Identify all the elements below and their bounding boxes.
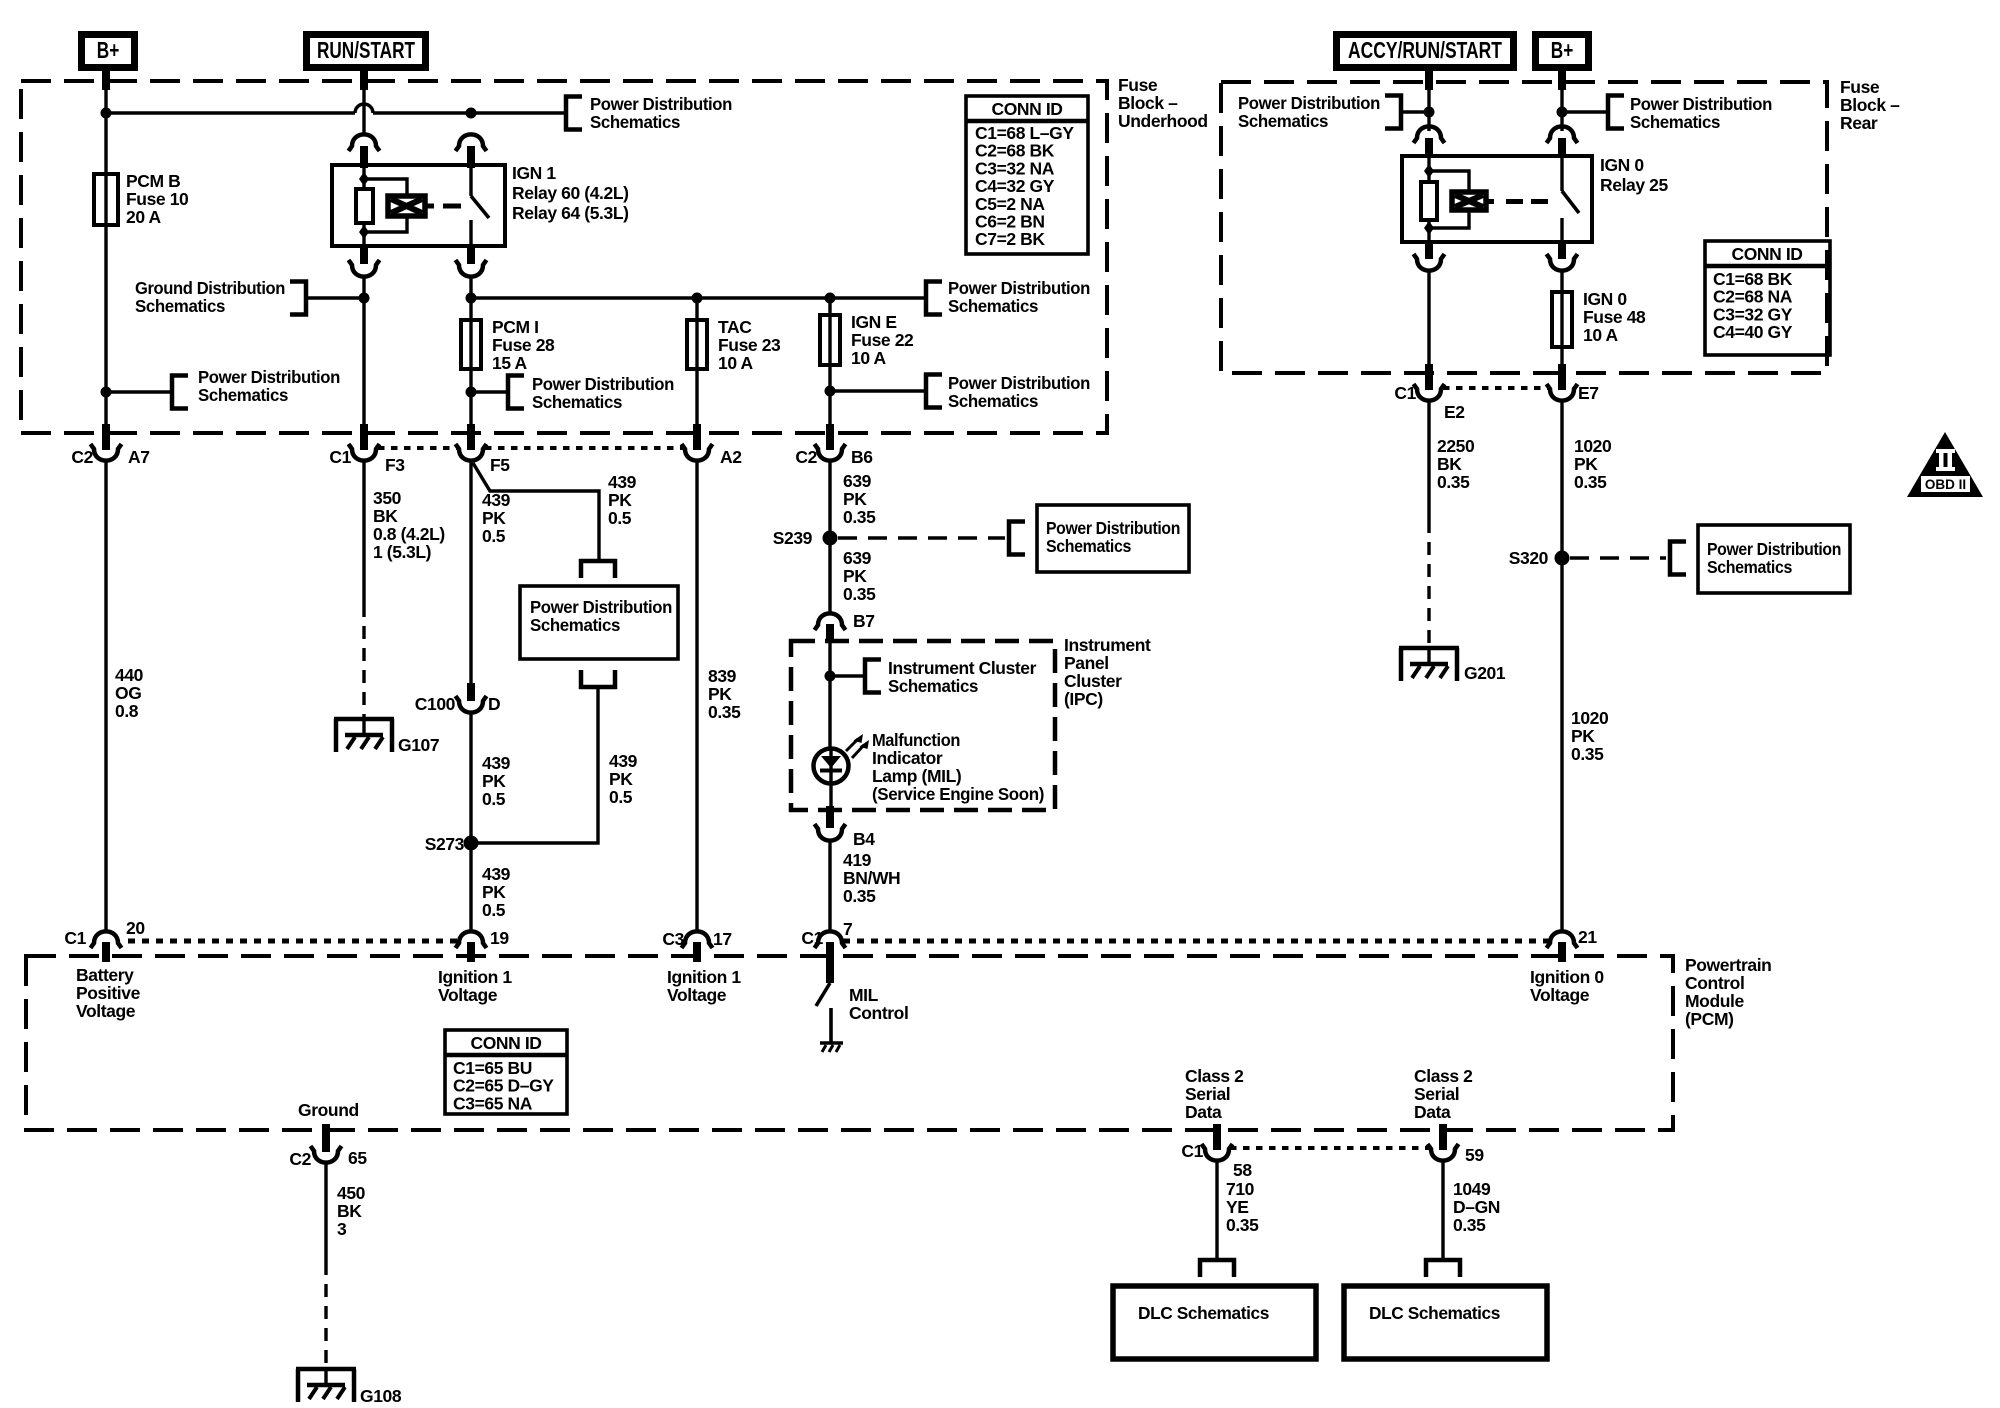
- svg-text:Relay 60 (4.2L): Relay 60 (4.2L): [512, 183, 629, 203]
- pin stub F5: [467, 424, 475, 450]
- relay IGN1 coil wire bottom: [362, 223, 365, 244]
- pin stub B4: [826, 806, 834, 828]
- relay IGN0 switch contact upper: [1560, 158, 1563, 191]
- svg-text:Voltage: Voltage: [438, 985, 498, 1005]
- pin stub 21: [1558, 942, 1566, 962]
- svg-text:D: D: [488, 694, 500, 714]
- OBD II symbol: [1907, 432, 1983, 497]
- wire to bracket below IGN E: [830, 389, 926, 392]
- svg-text:S239: S239: [773, 528, 813, 548]
- svg-text:BK: BK: [1437, 454, 1462, 474]
- svg-text:Schematics: Schematics: [1630, 112, 1721, 132]
- relay IGN1 coil pin stub: [360, 146, 368, 168]
- svg-text:Fuse 10: Fuse 10: [126, 189, 189, 209]
- svg-text:C2: C2: [289, 1149, 311, 1169]
- relay IGN1 box: [332, 165, 505, 246]
- connector B7 arc: [815, 613, 846, 630]
- junction dot below PCM I fuse: [466, 387, 477, 398]
- svg-text:Fuse 28: Fuse 28: [492, 335, 555, 355]
- wire E2 down solid: [1427, 401, 1430, 520]
- svg-text:Data: Data: [1185, 1102, 1222, 1122]
- svg-text:C100: C100: [415, 694, 456, 714]
- svg-text:C1: C1: [1394, 383, 1416, 403]
- wire B+ right terminal down: [1558, 71, 1566, 90]
- ground G108: [296, 1367, 356, 1372]
- svg-text:Schematics: Schematics: [1707, 557, 1793, 577]
- terminal B+ (right): [1536, 35, 1589, 68]
- connector C1 pin 7 arc: [815, 931, 846, 948]
- svg-text:0.35: 0.35: [1453, 1215, 1486, 1235]
- relay IGN0 coil pin stub: [1425, 138, 1433, 158]
- svg-text:BK: BK: [373, 506, 398, 526]
- connector C1 pin E2 cup: [1414, 384, 1445, 401]
- wire B4 to pin 7: [828, 841, 831, 930]
- svg-text:C3: C3: [662, 929, 684, 949]
- pin stub F3: [360, 424, 368, 450]
- svg-text:F3: F3: [385, 455, 405, 475]
- svg-text:439: 439: [608, 472, 637, 492]
- svg-text:Schematics: Schematics: [532, 392, 623, 412]
- wire relay IGN0 coil output down: [1427, 271, 1430, 366]
- svg-text:0.8 (4.2L): 0.8 (4.2L): [373, 524, 445, 544]
- connector C1 pin F3 cup: [349, 444, 380, 461]
- PCM dashed outline: [26, 956, 1673, 1130]
- svg-text:Block –: Block –: [1118, 93, 1178, 113]
- svg-text:17: 17: [713, 929, 732, 949]
- connector C100 stub: [467, 683, 475, 701]
- svg-text:0.35: 0.35: [1571, 744, 1604, 764]
- svg-text:10 A: 10 A: [851, 348, 886, 368]
- svg-text:Schematics: Schematics: [888, 676, 979, 696]
- svg-text:PK: PK: [608, 490, 632, 510]
- connector pin 59 cup: [1428, 1144, 1459, 1161]
- svg-text:Schematics: Schematics: [948, 391, 1039, 411]
- svg-text:E7: E7: [1578, 383, 1599, 403]
- svg-text:C1: C1: [801, 928, 823, 948]
- relay IGN0 solenoid crossed box: [1452, 192, 1486, 210]
- wire F3 down dashed: [362, 604, 365, 719]
- svg-text:20 A: 20 A: [126, 207, 161, 227]
- svg-text:PCM B: PCM B: [126, 171, 180, 191]
- relay IGN0 coil pin arc: [1414, 126, 1445, 143]
- relay IGN1 junction arrow top: [359, 172, 369, 186]
- svg-text:0.35: 0.35: [1226, 1215, 1259, 1235]
- exit symbol from PDS box: [581, 670, 615, 687]
- entry symbol into PDS box: [581, 561, 615, 578]
- relay IGN1 switch contact lower: [469, 220, 472, 246]
- svg-text:PCM I: PCM I: [492, 317, 539, 337]
- svg-text:Relay 64 (5.3L): Relay 64 (5.3L): [512, 203, 629, 223]
- svg-text:439: 439: [482, 864, 511, 884]
- entry symbol DLC left: [1200, 1260, 1234, 1277]
- connector C2 pin 65 cup: [311, 1146, 342, 1163]
- wire E7 down: [1560, 401, 1563, 931]
- svg-text:Voltage: Voltage: [76, 1001, 136, 1021]
- wire RUN/START terminal down: [360, 71, 368, 90]
- svg-text:Schematics: Schematics: [1238, 111, 1329, 131]
- DLC schematics box right: [1344, 1286, 1547, 1359]
- relay IGN0 output stub switch side: [1558, 242, 1566, 259]
- dotted connector line E2 to E7: [1443, 386, 1548, 390]
- svg-text:S273: S273: [425, 834, 465, 854]
- svg-text:CONN ID: CONN ID: [1731, 244, 1802, 264]
- svg-text:G107: G107: [398, 735, 439, 755]
- pin stub 58: [1213, 1124, 1221, 1150]
- ground G201: [1399, 646, 1459, 651]
- ground G107: [334, 717, 394, 722]
- svg-text:440: 440: [115, 665, 144, 685]
- svg-text:0.35: 0.35: [1574, 472, 1607, 492]
- splice S273 dot: [464, 836, 479, 851]
- svg-text:B6: B6: [851, 447, 873, 467]
- svg-text:1020: 1020: [1571, 708, 1609, 728]
- wire pin 58 to DLC: [1215, 1161, 1218, 1260]
- relay IGN0 actuation dashes: [1486, 199, 1494, 204]
- svg-text:C1: C1: [329, 447, 351, 467]
- svg-text:Instrument Cluster: Instrument Cluster: [888, 658, 1037, 678]
- pin stub E7: [1558, 364, 1566, 390]
- wire to instrument cluster bracket: [830, 674, 865, 677]
- svg-text:Power Distribution: Power Distribution: [590, 94, 732, 114]
- pin stub B7: [826, 624, 834, 643]
- svg-text:Control: Control: [849, 1003, 908, 1023]
- svg-text:C1: C1: [64, 928, 86, 948]
- terminal B+ (left): [82, 35, 135, 68]
- svg-text:Malfunction: Malfunction: [872, 730, 960, 750]
- pin stub 19: [467, 942, 475, 962]
- fuse F10 PCM B: [94, 174, 118, 225]
- svg-text:BN/WH: BN/WH: [843, 868, 900, 888]
- pin stub 59: [1439, 1124, 1447, 1150]
- svg-text:D–GN: D–GN: [1453, 1197, 1500, 1217]
- relay IGN0 switch contact lower: [1560, 218, 1563, 242]
- junction dot F3 column: [359, 293, 370, 304]
- svg-text:IGN E: IGN E: [851, 312, 897, 332]
- wire pin 65 down dashed: [324, 1262, 327, 1369]
- wire hop to relay switch feed: [373, 111, 471, 114]
- relay IGN0 coil wire bottom: [1427, 220, 1430, 240]
- wire pin 65 down solid: [324, 1163, 327, 1262]
- svg-text:0.35: 0.35: [843, 584, 876, 604]
- svg-text:B+: B+: [97, 39, 120, 64]
- svg-text:Lamp (MIL): Lamp (MIL): [872, 766, 961, 786]
- connector pin 21 arc: [1547, 931, 1578, 948]
- connector B4 cup: [815, 824, 846, 841]
- connector C1 pin 20 arc: [91, 931, 122, 948]
- MIL control switch: [826, 962, 834, 983]
- junction dot at x106 y392: [101, 387, 112, 398]
- svg-text:G201: G201: [1464, 663, 1506, 683]
- power distribution schematics box (S320): [1698, 525, 1850, 593]
- connector pin 19 arc: [456, 931, 487, 948]
- svg-text:Power Distribution: Power Distribution: [532, 374, 674, 394]
- svg-text:IGN 0: IGN 0: [1600, 155, 1644, 175]
- svg-text:439: 439: [609, 751, 638, 771]
- relay IGN1 solenoid stub: [425, 204, 434, 209]
- fuse F23 TAC: [687, 320, 707, 369]
- svg-text:Ground Distribution: Ground Distribution: [135, 278, 285, 298]
- svg-text:Voltage: Voltage: [1530, 985, 1590, 1005]
- wire ACCY terminal down: [1425, 71, 1433, 90]
- branch wire F5 to PDS box: [473, 463, 599, 561]
- wire lamp to B4: [829, 783, 832, 808]
- svg-text:450: 450: [337, 1183, 366, 1203]
- dotted connector line pin 20 to 19: [128, 939, 458, 944]
- svg-text:C2: C2: [71, 447, 93, 467]
- svg-text:Schematics: Schematics: [135, 296, 226, 316]
- svg-text:65: 65: [348, 1148, 367, 1168]
- bracket power distribution below PCM I: [508, 376, 524, 409]
- svg-text:IGN 1: IGN 1: [512, 163, 556, 183]
- svg-text:PK: PK: [1574, 454, 1598, 474]
- junction dot B+ bus: [101, 108, 112, 119]
- connector pin A2 cup: [682, 444, 713, 461]
- svg-text:3: 3: [337, 1219, 347, 1239]
- wire pin 59 to DLC: [1441, 1161, 1444, 1260]
- svg-text:Data: Data: [1414, 1102, 1451, 1122]
- relay IGN0 output cup coil side: [1414, 254, 1445, 271]
- svg-text:PK: PK: [482, 882, 506, 902]
- dotted connector line pin 58 to 59: [1230, 1146, 1431, 1150]
- wire to bracket below PCM I: [471, 390, 508, 393]
- svg-text:0.5: 0.5: [482, 526, 506, 546]
- bracket power distribution left low: [172, 376, 188, 409]
- svg-text:IGN 0: IGN 0: [1583, 289, 1627, 309]
- svg-text:G108: G108: [360, 1386, 402, 1406]
- connector pin E7 cup: [1547, 384, 1578, 401]
- svg-text:(IPC): (IPC): [1064, 689, 1103, 709]
- relay IGN0 output cup switch side: [1547, 254, 1578, 271]
- connector C1 pin 58 cup: [1202, 1144, 1233, 1161]
- relay IGN1 solenoid crossed box: [388, 196, 425, 216]
- terminal RUN/START: [307, 35, 426, 68]
- connector C100 cup: [456, 696, 487, 713]
- wire ground distribution bracket to F3 column: [306, 296, 364, 299]
- junction dot relay switch feed: [466, 108, 477, 119]
- wire B6 to B7: [828, 461, 831, 614]
- relay IGN1 coil pin arc: [349, 134, 380, 151]
- wire relay IGN0 switch output down: [1560, 271, 1563, 292]
- fuse F48 IGN 0: [1552, 292, 1572, 347]
- svg-text:C4=40 GY: C4=40 GY: [1713, 322, 1793, 342]
- svg-text:439: 439: [482, 753, 511, 773]
- wire hop over RUN/START wire: [355, 104, 373, 113]
- dotted connector line F3 to F5: [378, 446, 457, 450]
- svg-text:Ground: Ground: [298, 1100, 359, 1120]
- entry symbol DLC right: [1426, 1260, 1460, 1277]
- junction dot TAC fuse top: [692, 293, 703, 304]
- svg-text:639: 639: [843, 471, 872, 491]
- svg-text:C7=2 BK: C7=2 BK: [975, 229, 1045, 249]
- splice S320 dot: [1555, 551, 1570, 566]
- svg-text:CONN ID: CONN ID: [470, 1033, 541, 1053]
- svg-text:Schematics: Schematics: [1046, 536, 1132, 556]
- svg-text:Power Distribution: Power Distribution: [948, 373, 1090, 393]
- svg-text:PK: PK: [708, 684, 732, 704]
- wire to bracket left low: [106, 390, 172, 393]
- svg-text:Power Distribution: Power Distribution: [1238, 93, 1380, 113]
- conn id table rear: [1705, 241, 1830, 355]
- wire PCM I fuse to F5 connector: [469, 369, 472, 426]
- svg-text:710: 710: [1226, 1179, 1255, 1199]
- svg-text:A7: A7: [128, 447, 150, 467]
- pin stub A2: [693, 424, 701, 450]
- relay IGN1 coil wire top: [362, 167, 365, 189]
- relay IGN0 output stub coil side: [1425, 242, 1433, 259]
- svg-text:0.35: 0.35: [1437, 472, 1470, 492]
- IPC dashed outline: [791, 641, 1055, 810]
- svg-text:PK: PK: [482, 508, 506, 528]
- relay IGN0 coil wire top: [1427, 158, 1430, 182]
- svg-text:Relay 25: Relay 25: [1600, 175, 1668, 195]
- svg-text:(Service Engine Soon): (Service Engine Soon): [872, 784, 1044, 804]
- svg-text:Class 2: Class 2: [1185, 1066, 1244, 1086]
- svg-text:CONN ID: CONN ID: [991, 99, 1062, 119]
- svg-text:Power Distribution: Power Distribution: [1046, 518, 1180, 538]
- svg-text:10 A: 10 A: [718, 353, 753, 373]
- wire bus B+ to hop: [106, 111, 355, 114]
- wire E2 down dashed: [1427, 520, 1430, 648]
- power distribution schematics box (S239): [1037, 505, 1189, 572]
- svg-text:S320: S320: [1509, 548, 1549, 568]
- pin stub A7: [102, 424, 110, 450]
- svg-text:Schematics: Schematics: [948, 296, 1039, 316]
- svg-text:21: 21: [1578, 927, 1597, 947]
- relay IGN1 switch blade: [471, 196, 489, 218]
- svg-text:Voltage: Voltage: [667, 985, 727, 1005]
- relay IGN0 switch blade: [1562, 191, 1579, 213]
- svg-text:0.5: 0.5: [608, 508, 632, 528]
- connector pin F5 cup: [456, 444, 487, 461]
- svg-text:350: 350: [373, 488, 402, 508]
- DLC schematics box left: [1113, 1286, 1316, 1359]
- bracket ground distribution: [290, 282, 306, 315]
- junction dot IGN E fuse top: [825, 293, 836, 304]
- wire IGN0 fuse to E7: [1560, 347, 1563, 366]
- fuse F22 IGN E: [820, 315, 840, 365]
- svg-text:(PCM): (PCM): [1685, 1009, 1734, 1029]
- svg-text:Fuse: Fuse: [1840, 77, 1880, 97]
- wire IGN E fuse to B6 connector: [828, 365, 831, 426]
- bracket at S320 PDS box: [1670, 542, 1686, 575]
- junction dot PCM I fuse top: [466, 293, 477, 304]
- wire bracket to ACCY column: [1401, 110, 1429, 113]
- wire B+ terminal to PCM B fuse: [102, 71, 110, 90]
- bracket power distribution below IGN E: [926, 375, 942, 408]
- svg-text:Instrument: Instrument: [1064, 635, 1151, 655]
- svg-text:F5: F5: [490, 455, 510, 475]
- svg-text:Serial: Serial: [1414, 1084, 1459, 1104]
- svg-text:1 (5.3L): 1 (5.3L): [373, 542, 431, 562]
- svg-text:Control: Control: [1685, 973, 1744, 993]
- relay IGN0 junction arrow bottom: [1424, 221, 1434, 235]
- wire relay coil output down: [362, 277, 365, 426]
- junction dot B+ right column: [1557, 107, 1568, 118]
- svg-text:0.35: 0.35: [708, 702, 741, 722]
- svg-text:B+: B+: [1551, 39, 1574, 64]
- relay IGN0 junction arrow top: [1424, 164, 1434, 178]
- relay IGN1 junction arrow bottom: [359, 225, 369, 239]
- svg-text:Class 2: Class 2: [1414, 1066, 1473, 1086]
- pin stub E2: [1425, 364, 1433, 390]
- wire to power distribution bracket: [471, 111, 566, 114]
- conn id table underhood: [966, 96, 1088, 254]
- dotted connector line F5 to A2: [485, 446, 683, 450]
- svg-text:PK: PK: [482, 771, 506, 791]
- splice S239 dot: [823, 531, 838, 546]
- svg-text:0.5: 0.5: [482, 789, 506, 809]
- svg-text:58: 58: [1233, 1160, 1252, 1180]
- svg-text:Rear: Rear: [1840, 113, 1878, 133]
- connector C2 pin B6 cup: [815, 444, 846, 461]
- svg-text:Fuse 23: Fuse 23: [718, 335, 781, 355]
- wire C100 to S273: [469, 713, 472, 930]
- svg-text:OG: OG: [115, 683, 141, 703]
- relay IGN1 output cup coil side: [349, 260, 380, 277]
- svg-text:B7: B7: [853, 611, 875, 631]
- junction dot ACCY column: [1424, 107, 1435, 118]
- svg-text:Indicator: Indicator: [872, 748, 943, 768]
- relay IGN0 coil resistor: [1421, 182, 1437, 220]
- relay IGN1 switch contact upper: [469, 167, 472, 196]
- svg-text:439: 439: [482, 490, 511, 510]
- svg-text:59: 59: [1465, 1145, 1484, 1165]
- dashed wire S239 to bracket: [838, 536, 1005, 540]
- svg-text:0.35: 0.35: [843, 507, 876, 527]
- bracket power distribution B+ right: [1608, 96, 1624, 129]
- wire 440 OG segment: [104, 461, 107, 931]
- svg-text:Module: Module: [1685, 991, 1745, 1011]
- svg-text:PK: PK: [609, 769, 633, 789]
- svg-text:Battery: Battery: [76, 965, 134, 985]
- svg-text:Cluster: Cluster: [1064, 671, 1122, 691]
- svg-text:Serial: Serial: [1185, 1084, 1230, 1104]
- svg-text:2250: 2250: [1437, 436, 1475, 456]
- svg-text:7: 7: [843, 919, 852, 939]
- wire F5 down to C100: [469, 461, 472, 683]
- terminal ACCY/RUN/START: [1337, 35, 1514, 68]
- svg-text:PK: PK: [843, 489, 867, 509]
- dotted connector line pin 7 to 21: [843, 939, 1549, 944]
- svg-text:RUN/START: RUN/START: [317, 39, 415, 64]
- svg-text:419: 419: [843, 850, 872, 870]
- fuse block rear dashed outline: [1221, 82, 1827, 373]
- svg-text:MIL: MIL: [849, 985, 879, 1005]
- wire PCM B fuse to connector A7: [104, 225, 107, 426]
- bracket power distribution right of bus: [926, 282, 942, 315]
- pin stub B6: [826, 424, 834, 450]
- relay IGN0 switch pin arc: [1547, 126, 1578, 143]
- wire relay switch output down: [469, 277, 472, 320]
- wire IGN E fuse column top: [828, 298, 831, 315]
- pin stub 17: [693, 942, 701, 962]
- junction dot below IGN E fuse: [825, 386, 836, 397]
- svg-text:A2: A2: [720, 447, 742, 467]
- connector C2 pin A7 cup: [91, 444, 122, 461]
- svg-text:0.8: 0.8: [115, 701, 139, 721]
- pin stub 65: [322, 1124, 330, 1152]
- relay IGN1 output stub switch side: [467, 246, 475, 264]
- fuse block underhood dashed outline: [21, 81, 1107, 433]
- wire F3 down solid: [362, 461, 365, 604]
- relay IGN1 actuation dash: [443, 204, 461, 209]
- svg-text:Schematics: Schematics: [198, 385, 289, 405]
- svg-text:Ignition 1: Ignition 1: [438, 967, 512, 987]
- svg-text:20: 20: [126, 918, 145, 938]
- relay IGN0 box: [1402, 156, 1592, 242]
- svg-text:0.35: 0.35: [843, 886, 876, 906]
- svg-text:1020: 1020: [1574, 436, 1612, 456]
